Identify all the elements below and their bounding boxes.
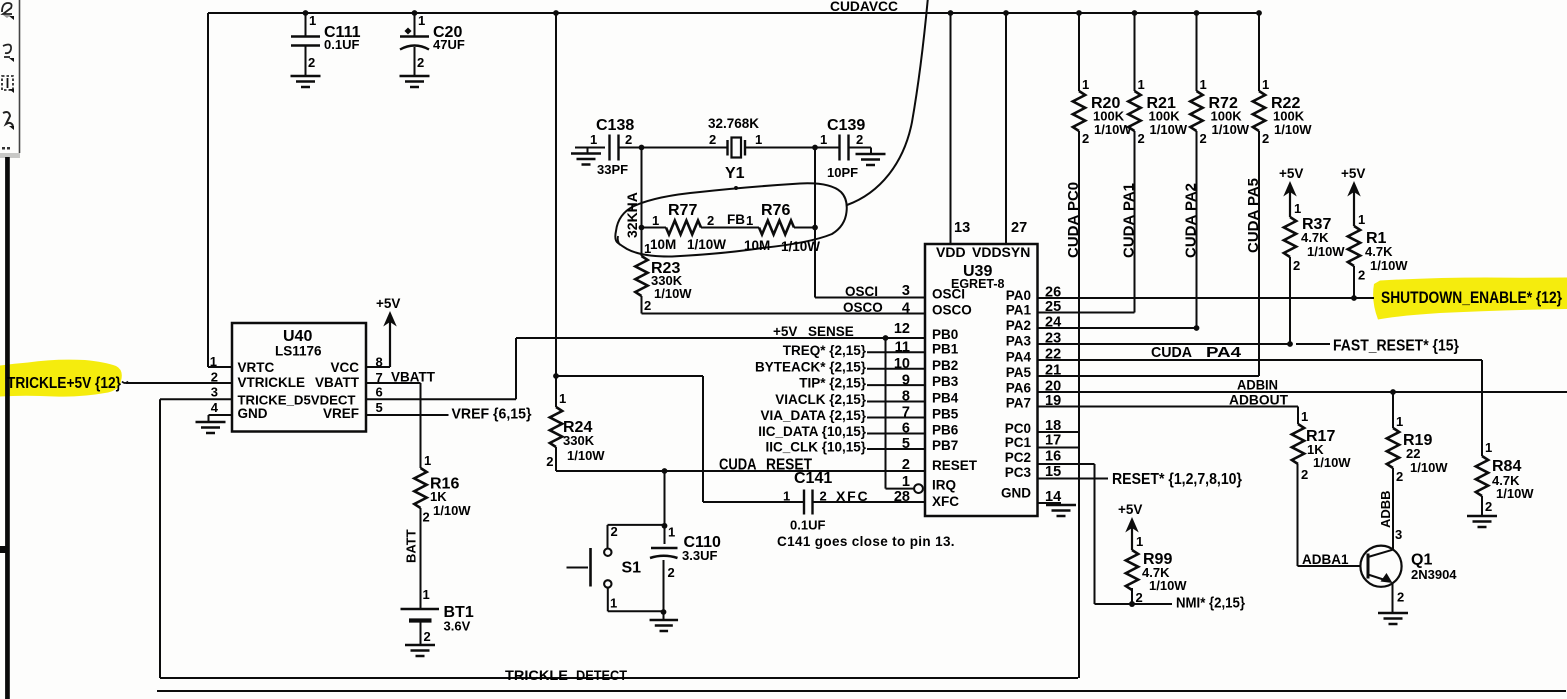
svg-text:10M: 10M: [744, 238, 770, 253]
svg-text:47UF: 47UF: [433, 37, 465, 52]
svg-text:VIACLK {2,15}: VIACLK {2,15}: [775, 392, 867, 407]
svg-text:TIP* {2,15}: TIP* {2,15}: [799, 376, 867, 391]
svg-text:17: 17: [1045, 433, 1061, 449]
svg-text:1/10W: 1/10W: [1150, 122, 1188, 137]
svg-text:10PF: 10PF: [827, 165, 858, 180]
svg-text:1: 1: [559, 391, 566, 406]
svg-text:TREQ* {2,15}: TREQ* {2,15}: [783, 343, 867, 358]
svg-text:CUDA PA5: CUDA PA5: [1245, 178, 1262, 253]
svg-text:0.1UF: 0.1UF: [790, 518, 825, 533]
svg-text:1: 1: [210, 354, 217, 369]
svg-text:PB3: PB3: [932, 374, 959, 389]
svg-text:5: 5: [376, 400, 383, 415]
svg-text:6: 6: [376, 385, 383, 400]
svg-text:IIC_DATA {10,15}: IIC_DATA {10,15}: [758, 424, 867, 439]
svg-text:Q1: Q1: [1411, 552, 1432, 569]
svg-text:VTRICKLE: VTRICKLE: [238, 375, 306, 390]
svg-text:2: 2: [625, 132, 632, 147]
svg-text:LS1176: LS1176: [275, 344, 322, 359]
svg-text:VIA_DATA {2,15}: VIA_DATA {2,15}: [760, 408, 866, 423]
svg-text:2: 2: [1082, 131, 1089, 146]
svg-text:VBATT: VBATT: [391, 370, 436, 385]
svg-text:32.768K: 32.768K: [708, 116, 759, 131]
svg-text:+5V: +5V: [376, 296, 400, 311]
svg-text:2: 2: [1200, 131, 1207, 146]
svg-text:1: 1: [820, 132, 827, 147]
svg-text:13: 13: [954, 220, 970, 236]
svg-text:1/10W: 1/10W: [1410, 460, 1448, 475]
svg-text:4: 4: [211, 400, 219, 415]
svg-text:1K: 1K: [430, 489, 447, 504]
svg-text:4.7K: 4.7K: [1365, 244, 1393, 259]
svg-text:R76: R76: [761, 202, 790, 219]
svg-text:1/10W: 1/10W: [1496, 486, 1534, 501]
svg-text:32KHA: 32KHA: [624, 192, 640, 238]
svg-text:OSCO: OSCO: [932, 303, 972, 318]
svg-text:CUDA: CUDA: [1151, 344, 1192, 361]
svg-text:FB: FB: [727, 212, 745, 227]
svg-text:PB4: PB4: [932, 391, 959, 406]
svg-text:1: 1: [746, 213, 753, 228]
svg-text:1: 1: [1200, 77, 1207, 92]
svg-text:S1: S1: [622, 560, 642, 577]
svg-text:PA3: PA3: [1006, 334, 1032, 349]
svg-text:DETECT: DETECT: [576, 667, 627, 683]
svg-text:1/10W: 1/10W: [687, 237, 726, 252]
svg-text:2: 2: [644, 298, 651, 313]
svg-text:1/10W: 1/10W: [567, 448, 605, 463]
svg-text:PB7: PB7: [932, 438, 958, 453]
svg-text:2: 2: [668, 565, 675, 580]
svg-text:PA5: PA5: [1006, 365, 1032, 380]
svg-text:PC3: PC3: [1005, 465, 1032, 480]
svg-text:+5V: +5V: [1279, 166, 1303, 181]
svg-text:2: 2: [423, 510, 430, 525]
svg-text:PA0: PA0: [1006, 288, 1031, 303]
svg-text:PA4: PA4: [1206, 344, 1242, 361]
svg-text:SENSE: SENSE: [808, 324, 854, 339]
svg-text:1: 1: [652, 213, 659, 228]
svg-text:XFC: XFC: [932, 494, 959, 509]
svg-text:2: 2: [1358, 268, 1365, 283]
svg-text:1: 1: [1301, 409, 1308, 424]
svg-text:VREF: VREF: [323, 406, 359, 421]
svg-text:RESET* {1,2,7,8,10}: RESET* {1,2,7,8,10}: [1112, 471, 1242, 488]
svg-text:1: 1: [668, 525, 675, 540]
svg-text:2: 2: [1262, 131, 1269, 146]
svg-text:1: 1: [1262, 77, 1269, 92]
svg-text:GND: GND: [238, 406, 268, 421]
svg-text:2: 2: [1485, 499, 1492, 514]
svg-text:BYTEACK* {2,15}: BYTEACK* {2,15}: [755, 359, 867, 374]
svg-text:OSCI: OSCI: [932, 287, 965, 302]
svg-text:1: 1: [424, 453, 431, 468]
svg-text:1/10W: 1/10W: [1313, 455, 1351, 470]
svg-text:1: 1: [755, 132, 762, 147]
svg-text:C139: C139: [827, 117, 865, 134]
svg-text:ADBIN: ADBIN: [1237, 377, 1278, 393]
svg-text:IIC_CLK {10,15}: IIC_CLK {10,15}: [765, 440, 866, 455]
svg-text:TRICKLE: TRICKLE: [505, 667, 568, 683]
svg-text:C138: C138: [596, 117, 634, 134]
svg-text:FAST_RESET* {15}: FAST_RESET* {15}: [1333, 338, 1459, 355]
svg-text:PA4: PA4: [1006, 350, 1032, 365]
svg-text:R77: R77: [668, 202, 697, 219]
svg-text:PC0: PC0: [1005, 421, 1031, 436]
svg-text:1: 1: [309, 13, 316, 28]
svg-text:1: 1: [423, 587, 430, 602]
svg-text:2: 2: [1301, 467, 1308, 482]
svg-text:3.6V: 3.6V: [444, 619, 471, 634]
svg-text:XFC: XFC: [836, 488, 869, 504]
svg-text:10M: 10M: [650, 237, 676, 252]
svg-text:2: 2: [1293, 258, 1300, 273]
svg-text:ADBB: ADBB: [1378, 490, 1393, 528]
svg-text:VCC: VCC: [330, 360, 359, 375]
svg-text:2: 2: [1397, 590, 1404, 605]
svg-text:+5V: +5V: [773, 324, 797, 339]
svg-text:PB5: PB5: [932, 407, 959, 422]
svg-text:U40: U40: [283, 328, 312, 345]
svg-text:PB6: PB6: [932, 423, 959, 438]
svg-text:2: 2: [709, 132, 716, 147]
svg-text:1/10W: 1/10W: [1274, 122, 1312, 137]
svg-text:1: 1: [1082, 77, 1089, 92]
svg-text:OSCI: OSCI: [845, 284, 878, 299]
svg-text:2: 2: [856, 132, 863, 147]
svg-text:C141 goes close to pin 13.: C141 goes close to pin 13.: [777, 534, 955, 549]
svg-text:CUDAVCC: CUDAVCC: [830, 0, 898, 14]
svg-text:3.3UF: 3.3UF: [682, 548, 717, 563]
svg-text:C141: C141: [794, 470, 832, 487]
svg-text:1/10W: 1/10W: [654, 286, 692, 301]
svg-text:VDDSYN: VDDSYN: [972, 244, 1030, 260]
svg-text:RESET: RESET: [932, 458, 978, 473]
svg-text:1: 1: [1485, 440, 1492, 455]
svg-text:PB1: PB1: [932, 342, 959, 357]
svg-text:3: 3: [211, 385, 218, 400]
svg-text:3: 3: [1395, 527, 1402, 542]
svg-text:1/10W: 1/10W: [1370, 258, 1408, 273]
svg-text:NMI* {2,15}: NMI* {2,15}: [1176, 595, 1245, 612]
svg-text:IRQ: IRQ: [932, 478, 956, 493]
svg-text:PC1: PC1: [1005, 435, 1032, 450]
svg-text:PA2: PA2: [1006, 318, 1031, 333]
svg-text:1/10W: 1/10W: [433, 503, 471, 518]
svg-text:33PF: 33PF: [597, 162, 628, 177]
svg-text:CUDA PC0: CUDA PC0: [1065, 182, 1082, 258]
svg-text:330K: 330K: [563, 433, 595, 448]
svg-text:PA1: PA1: [1006, 303, 1032, 318]
svg-text:CUDA PA2: CUDA PA2: [1183, 183, 1200, 258]
svg-text:1/10W: 1/10W: [1094, 122, 1132, 137]
svg-text:22: 22: [1406, 446, 1420, 461]
svg-text:SHUTDOWN_ENABLE* {12}: SHUTDOWN_ENABLE* {12}: [1381, 288, 1562, 307]
svg-text:2: 2: [417, 55, 424, 70]
svg-text:VRTC: VRTC: [238, 360, 275, 375]
svg-text:GND: GND: [1001, 486, 1031, 501]
svg-text:2: 2: [1138, 131, 1145, 146]
svg-text:12: 12: [894, 321, 910, 337]
svg-text:PA6: PA6: [1006, 381, 1032, 396]
svg-text:1: 1: [418, 13, 425, 28]
svg-text:ADBA1: ADBA1: [1302, 552, 1349, 567]
svg-text:1/10W: 1/10W: [1212, 122, 1250, 137]
svg-text:1: 1: [783, 489, 790, 504]
svg-text:+5V: +5V: [1118, 502, 1142, 517]
svg-text:1: 1: [1138, 77, 1145, 92]
svg-text:1/10W: 1/10W: [1307, 244, 1345, 259]
svg-text:1: 1: [1294, 201, 1301, 216]
svg-text:4.7K: 4.7K: [1301, 230, 1329, 245]
svg-text:1: 1: [590, 132, 597, 147]
svg-text:2: 2: [1396, 469, 1403, 484]
svg-text:1: 1: [644, 241, 651, 256]
svg-text:2: 2: [611, 524, 618, 539]
svg-text:VREF {6,15}: VREF {6,15}: [452, 407, 532, 423]
svg-text:1: 1: [1396, 414, 1403, 429]
svg-text:4: 4: [902, 301, 910, 317]
svg-text:CUDA: CUDA: [719, 457, 757, 474]
svg-text:2: 2: [820, 489, 827, 504]
svg-text:27: 27: [1011, 220, 1027, 236]
svg-text:1: 1: [610, 596, 617, 611]
svg-text:VBATT: VBATT: [315, 375, 360, 390]
svg-text:2: 2: [1136, 590, 1143, 605]
svg-text:PB0: PB0: [932, 327, 958, 342]
svg-text:ADBOUT: ADBOUT: [1229, 392, 1288, 408]
svg-text:2: 2: [308, 55, 315, 70]
svg-text:1/10W: 1/10W: [1149, 578, 1187, 593]
svg-text:16: 16: [1045, 449, 1061, 465]
svg-text:+5V: +5V: [1341, 166, 1365, 181]
svg-text:3: 3: [902, 283, 910, 299]
svg-text:TRICKLE+5V {12}: TRICKLE+5V {12}: [7, 375, 121, 392]
svg-text:2: 2: [424, 629, 431, 644]
svg-text:2: 2: [707, 213, 714, 228]
svg-text:2: 2: [546, 454, 553, 469]
svg-text:PB2: PB2: [932, 358, 958, 373]
svg-text:PA7: PA7: [1006, 396, 1031, 411]
svg-text:1: 1: [1358, 212, 1365, 227]
svg-text:1: 1: [1136, 534, 1143, 549]
svg-text:VDD: VDD: [936, 244, 966, 260]
svg-text:OSCO: OSCO: [843, 300, 883, 315]
svg-text:PC2: PC2: [1005, 450, 1031, 465]
svg-text:CUDA PA1: CUDA PA1: [1121, 183, 1138, 258]
svg-text:BATT: BATT: [404, 529, 419, 563]
svg-text:Y1: Y1: [725, 165, 745, 182]
svg-text:2N3904: 2N3904: [1411, 567, 1457, 582]
svg-text:0.1UF: 0.1UF: [324, 37, 359, 52]
